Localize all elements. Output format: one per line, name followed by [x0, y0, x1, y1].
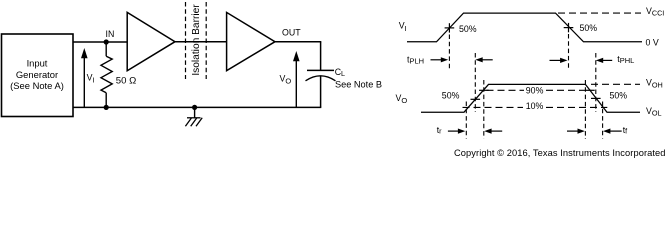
dashed vertical VI fall 50%: [568, 34, 570, 69]
VOH dashed level line: [591, 83, 640, 85]
svg-text:10%: 10%: [526, 101, 544, 111]
wire: U2 output to load: [275, 41, 321, 43]
marker tick VO rise 50%: [471, 98, 481, 100]
marker tick VO fall 90%: [585, 89, 595, 91]
svg-text:0 V: 0 V: [646, 37, 659, 47]
tPLH arrow right: [431, 57, 449, 62]
svg-text:90%: 90%: [526, 85, 544, 95]
svg-text:Isolation Barrier: Isolation Barrier: [191, 4, 202, 76]
VI source arrow: [81, 48, 88, 107]
wire: bottom rail: [73, 106, 321, 108]
10% dashed level line: [463, 106, 524, 108]
dashed vertical VO fall edge (tf): [584, 80, 586, 139]
svg-text:VCCI: VCCI: [646, 6, 664, 18]
marker tick VO fall 50%: [591, 97, 601, 99]
svg-text:50%: 50%: [442, 90, 460, 100]
svg-text:50%: 50%: [459, 24, 477, 34]
svg-text:Input: Input: [27, 58, 48, 69]
input generator box: [2, 34, 74, 117]
isolation barrier dashed line left: [185, 2, 187, 79]
svg-text:Generator: Generator: [16, 69, 58, 80]
Vcc dashed level line: [558, 12, 641, 14]
dashed vertical VI rise 50%: [448, 35, 450, 69]
svg-text:50 Ω: 50 Ω: [116, 75, 137, 86]
dashed vertical VO fall 50% (tPHL): [595, 53, 597, 112]
tf arrow right: [567, 129, 585, 134]
wire: U1 output through barrier to U2 input: [175, 41, 227, 43]
svg-text:(See Note A): (See Note A): [10, 80, 64, 91]
tPHL arrow left: [596, 58, 612, 63]
buffer U1: [127, 12, 175, 70]
marker tick VI fall 50%: [564, 23, 574, 32]
svg-text:See Note B: See Note B: [335, 79, 382, 89]
tf arrow left: [603, 129, 622, 134]
buffer U2: [227, 12, 275, 70]
svg-text:tf: tf: [623, 125, 627, 136]
dashed vertical VO rise 90% (tr): [483, 80, 485, 139]
dashed vertical VO rise 50% (tPLH): [474, 53, 476, 112]
tr arrow right: [448, 129, 465, 134]
svg-text:50%: 50%: [580, 23, 598, 33]
tPHL arrow right: [550, 58, 568, 63]
svg-text:VOL: VOL: [646, 106, 662, 118]
svg-text:Copyright © 2016, Texas Instru: Copyright © 2016, Texas Instruments Inco…: [454, 148, 665, 158]
marker tick VO rise 90%: [479, 89, 489, 91]
resistor R 50 ohm: [101, 42, 112, 107]
svg-text:IN: IN: [106, 29, 115, 39]
junction dot resistor bottom: [104, 105, 109, 110]
svg-text:tr: tr: [437, 125, 442, 136]
junction dot ground: [192, 105, 197, 110]
svg-text:tPHL: tPHL: [617, 54, 634, 65]
VO arrow: [293, 51, 300, 107]
svg-text:OUT: OUT: [282, 28, 301, 38]
capacitor CL: [306, 70, 336, 107]
90% dashed level line: [487, 89, 525, 91]
svg-text:CL: CL: [335, 67, 345, 78]
dashed vertical VO fall 10% (tf): [602, 102, 604, 139]
tPLH arrow left: [475, 57, 492, 62]
VO waveform: [421, 84, 640, 112]
tr arrow left: [484, 129, 502, 134]
svg-text:VOH: VOH: [646, 78, 663, 90]
svg-text:50%: 50%: [610, 90, 628, 100]
dashed vertical VO rise 10% (tr): [465, 102, 467, 139]
svg-text:tPLH: tPLH: [407, 54, 424, 65]
wire: load top lead: [320, 42, 322, 71]
wire: generator to buffer input (top): [73, 41, 127, 43]
isolation barrier dashed line right: [205, 2, 207, 79]
node IN junction dot: [104, 39, 109, 44]
VI waveform: [407, 13, 642, 42]
marker tick VI rise 50%: [445, 23, 455, 32]
ground: [185, 107, 202, 126]
